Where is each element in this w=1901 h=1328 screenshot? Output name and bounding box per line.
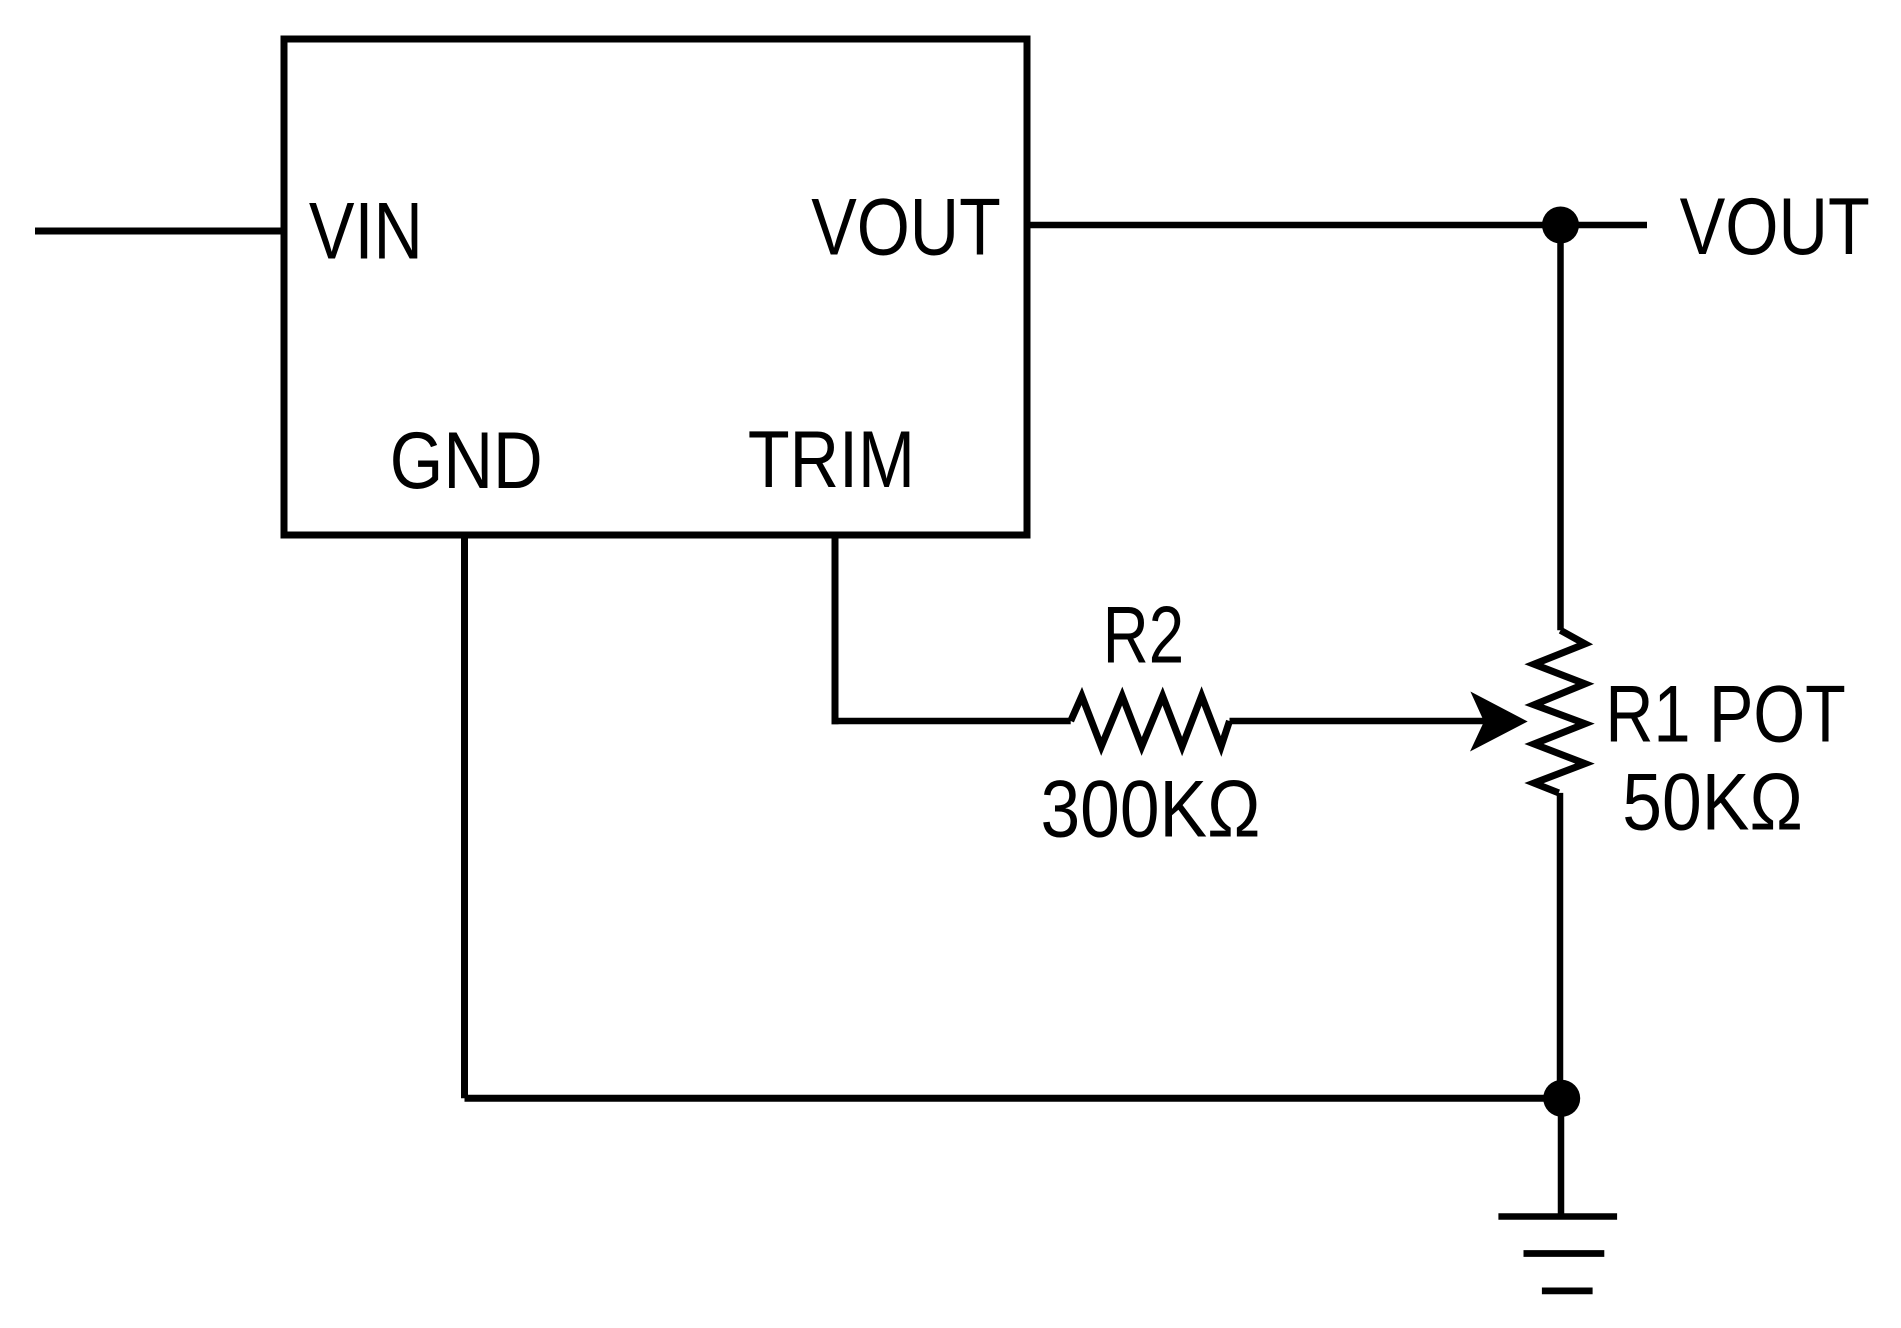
svg-text:VIN: VIN [309, 187, 423, 277]
wire ground stem [1558, 1098, 1565, 1216]
svg-text:GND: GND [390, 416, 543, 506]
svg-text:R2: R2 [1103, 591, 1184, 681]
node VOUT junction [1542, 207, 1579, 244]
wire R1 bottom [1557, 793, 1564, 1098]
resistor R1 potentiometer zigzag [1534, 630, 1585, 793]
ground symbol bar 1 [1498, 1213, 1617, 1220]
wire GND vertical [461, 535, 468, 1098]
wiper arrow [1470, 692, 1528, 752]
wire R2 to wiper [1230, 718, 1488, 725]
svg-text:TRIM: TRIM [748, 415, 915, 505]
svg-text:VOUT: VOUT [811, 183, 1001, 273]
ground symbol bar 2 [1524, 1250, 1605, 1257]
resistor R2 zigzag [1071, 696, 1230, 747]
regulator IC box [284, 39, 1027, 535]
node ground junction [1543, 1080, 1580, 1117]
wire TRIM horizontal [832, 718, 1071, 725]
wire TRIM vertical [832, 535, 839, 724]
svg-text:300KΩ: 300KΩ [1041, 765, 1261, 855]
ground symbol bar 3 [1542, 1288, 1593, 1295]
wire VOUT to R1 [1557, 225, 1564, 630]
svg-text:R1 POT: R1 POT [1605, 670, 1845, 760]
wire VIN input [35, 228, 284, 235]
svg-text:50KΩ: 50KΩ [1622, 758, 1803, 848]
svg-text:VOUT: VOUT [1680, 182, 1870, 272]
wire GND bottom horizontal [465, 1095, 1562, 1102]
wire VOUT output [1027, 222, 1647, 229]
